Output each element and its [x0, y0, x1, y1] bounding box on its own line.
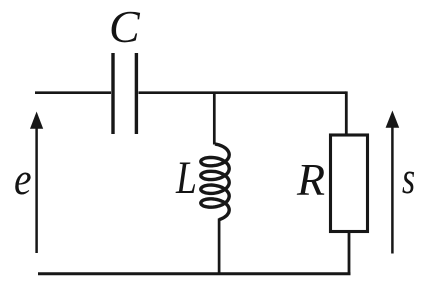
label L — [176, 151, 197, 205]
label R — [297, 153, 325, 206]
wire right branch down to resistor — [345, 91, 348, 135]
label e — [14, 153, 32, 205]
wire middle branch from top wire to inductor — [213, 93, 216, 145]
arrow s head — [386, 111, 400, 128]
arrow e head — [30, 112, 43, 129]
capacitor C1 left plate — [111, 53, 114, 134]
wire top-right segment — [139, 91, 347, 94]
label C — [109, 0, 140, 53]
arrow s shaft — [391, 125, 394, 254]
wire below inductor — [218, 219, 221, 274]
wire below resistor — [348, 232, 351, 274]
wire top-left segment — [35, 91, 111, 94]
inductor L coil — [201, 144, 229, 220]
wire bottom segment — [38, 272, 351, 275]
resistor R body — [331, 135, 368, 232]
label s — [402, 152, 415, 204]
arrow e shaft — [35, 126, 38, 253]
capacitor C1 right plate — [135, 53, 138, 134]
